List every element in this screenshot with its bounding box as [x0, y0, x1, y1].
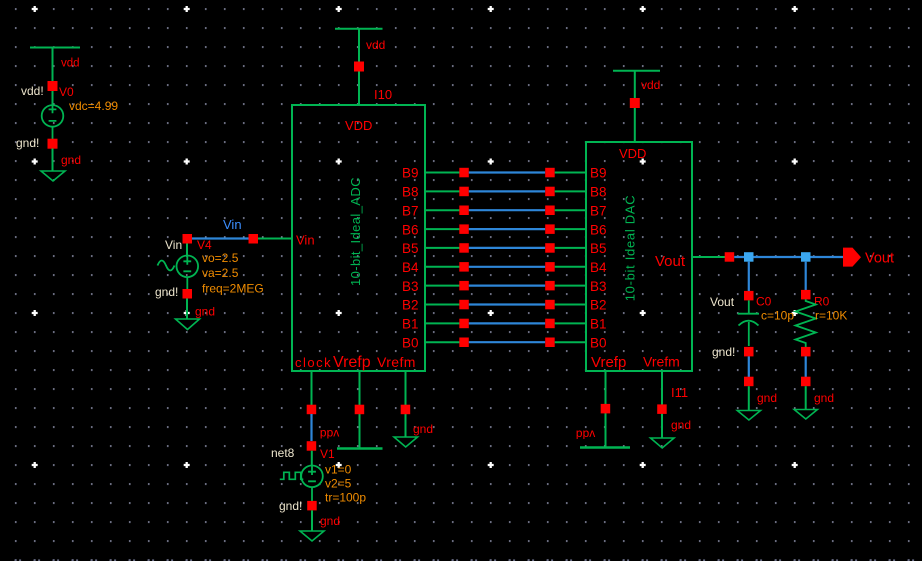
vsin source V4 — [177, 244, 199, 290]
junction square B7 left — [459, 206, 469, 216]
junction square Vrefp (DAC) — [601, 404, 611, 414]
ground symbol (V0) — [41, 149, 65, 182]
vdd symbol of V0 supply — [30, 48, 80, 82]
pin square R0 top — [801, 290, 811, 300]
svg-text:tr=100p: tr=100p — [325, 491, 366, 505]
junction square C0 gnd — [744, 377, 754, 387]
pin label B5 (ADC) — [402, 241, 419, 256]
junction square B0 right — [545, 338, 555, 348]
wire clock to V1 (blue) — [310, 414, 312, 441]
junction square B3 left — [459, 281, 469, 291]
pin label Vrefp (DAC) — [591, 354, 626, 371]
instance name C0 — [756, 295, 772, 309]
pin label B7 (ADC) — [402, 203, 419, 218]
pin label VDD (ADC) — [345, 118, 372, 133]
wire clock stub — [311, 371, 313, 405]
svg-text:gnd: gnd — [757, 391, 777, 405]
svg-text:net8: net8 — [271, 446, 295, 460]
value label vo=2.5 — [202, 251, 239, 265]
svg-text:Vin: Vin — [223, 217, 242, 232]
pin square ADC VDD — [354, 62, 364, 72]
net label gnd (DAC Vrefm) — [671, 418, 691, 432]
svg-text:Vout: Vout — [710, 295, 735, 309]
svg-text:gnd!: gnd! — [279, 499, 302, 513]
svg-text:R0: R0 — [814, 295, 830, 309]
wire B7 DAC stub — [555, 209, 586, 211]
pin label B1 (ADC) — [402, 317, 419, 332]
wire B7 ADC stub — [425, 209, 460, 211]
value label c=10p — [761, 309, 794, 323]
pin label B8 (DAC) — [590, 185, 607, 200]
value label va=2.5 — [202, 266, 239, 280]
wire B8 (blue net) — [469, 190, 545, 192]
svg-text:gnd!: gnd! — [712, 345, 735, 359]
solder dot Vout/R0 — [801, 252, 811, 262]
svg-text:gnd: gnd — [413, 422, 433, 436]
net label net8 — [271, 446, 295, 460]
svg-text:Vin: Vin — [296, 233, 315, 248]
junction square Vin left — [183, 234, 193, 244]
svg-text:Vrefp: Vrefp — [591, 354, 626, 371]
svg-text:B5: B5 — [590, 241, 607, 256]
svg-text:Vout: Vout — [865, 251, 894, 267]
pin label B9 (ADC) — [402, 166, 419, 181]
net label gnd (V0) — [61, 153, 81, 167]
net label gnd! (V0) — [16, 136, 39, 150]
junction square B6 left — [459, 224, 469, 234]
wire C0 top (blue) — [748, 262, 750, 291]
svg-text:B2: B2 — [590, 298, 607, 313]
wire ADC VDD stem — [358, 72, 360, 106]
net label gnd! (V1) — [279, 499, 302, 513]
wire Vrefp stub (DAC) — [605, 371, 607, 447]
pin label B0 (ADC) — [402, 335, 419, 350]
pin label B9 (DAC) — [590, 166, 607, 181]
svg-text:gnd: gnd — [320, 514, 340, 528]
net label vdd (ADC Vrefp) — [320, 427, 339, 441]
svg-text:V4: V4 — [197, 238, 212, 252]
cell label 10-bit Ideal DAC — [623, 195, 638, 302]
svg-text:B4: B4 — [590, 260, 607, 275]
sine glyph of V4 — [158, 261, 175, 271]
junction square B5 right — [545, 243, 555, 253]
wire B6 ADC stub — [425, 228, 460, 230]
svg-text:C0: C0 — [756, 295, 772, 309]
net label gnd (V1) — [320, 514, 340, 528]
wire B4 (blue net) — [469, 266, 545, 268]
net label vdd (DAC Vrefp) — [576, 428, 595, 442]
svg-text:va=2.5: va=2.5 — [202, 266, 239, 280]
svg-text:vdd: vdd — [61, 58, 80, 70]
wire DAC VDD stem — [634, 108, 636, 142]
pin label B0 (DAC) — [590, 335, 607, 350]
svg-text:gnd!: gnd! — [16, 136, 39, 150]
svg-text:VDD: VDD — [345, 118, 372, 133]
svg-text:V1: V1 — [320, 447, 335, 461]
svg-text:Vin: Vin — [165, 238, 182, 252]
junction square Vout — [725, 252, 735, 262]
value label v2=5 — [325, 477, 352, 491]
solder dot Vout/C0 — [744, 252, 754, 262]
ground symbol (V1) — [300, 510, 324, 541]
pin label B1 (DAC) — [590, 317, 607, 332]
net label Vout (C0, white) — [710, 295, 735, 309]
svg-text:Vrefm: Vrefm — [377, 354, 416, 370]
wire B2 (blue net) — [469, 303, 545, 305]
wire B0 ADC stub — [425, 341, 460, 343]
wire Vrefm stub (DAC) — [661, 371, 663, 438]
wire B0 (blue net) — [469, 341, 545, 343]
pin label Vrefm (DAC) — [643, 354, 680, 370]
junction square B2 right — [545, 300, 555, 310]
instance name V4 — [197, 238, 212, 252]
pin label Vin (ADC) — [296, 233, 315, 248]
svg-text:Vout: Vout — [655, 253, 686, 270]
wire B7 (blue net) — [469, 209, 545, 211]
wire B3 ADC stub — [425, 285, 460, 287]
wire B5 ADC stub — [425, 247, 460, 249]
svg-text:B2: B2 — [402, 298, 419, 313]
capacitor C0 — [738, 300, 759, 346]
svg-text:B3: B3 — [402, 279, 419, 294]
net name Vin (blue wire label) — [223, 217, 242, 232]
wire B4 ADC stub — [425, 266, 460, 268]
pin square C0 top — [744, 291, 754, 301]
svg-text:v1=0: v1=0 — [325, 463, 352, 477]
svg-text:vdd: vdd — [366, 38, 385, 52]
wire B8 ADC stub — [425, 190, 460, 192]
junction square clock — [307, 405, 317, 415]
vpulse source V1 — [301, 451, 323, 501]
svg-text:gnd: gnd — [195, 305, 215, 319]
pin label B4 (DAC) — [590, 260, 607, 275]
wire B5 (blue net) — [469, 247, 545, 249]
junction square B8 left — [459, 187, 469, 197]
ground symbol (R0) — [794, 386, 817, 419]
DAC block I11 10-bit Ideal DAC — [586, 142, 692, 371]
svg-text:vo=2.5: vo=2.5 — [202, 251, 239, 265]
pin label B6 (DAC) — [590, 222, 607, 237]
junction square B9 right — [545, 168, 555, 178]
resistor R0 — [796, 299, 816, 347]
svg-text:B1: B1 — [590, 317, 607, 332]
pin label Vout (DAC) — [655, 253, 686, 270]
pin label B5 (DAC) — [590, 241, 607, 256]
junction square B4 right — [545, 262, 555, 272]
vdd symbol below DAC Vrefp — [580, 446, 630, 448]
instance name R0 — [814, 295, 830, 309]
wire to ADC Vin pin — [258, 238, 292, 240]
svg-text:B4: B4 — [402, 260, 419, 275]
instance name I11 — [671, 385, 688, 400]
junction square B1 right — [545, 319, 555, 329]
svg-text:gnd: gnd — [671, 418, 691, 432]
net label vdd (ADC top) — [366, 38, 385, 52]
svg-text:10-bit Ideal DAC: 10-bit Ideal DAC — [623, 195, 638, 302]
wire Vin (blue) — [187, 237, 253, 239]
pin label Vrefm (ADC) — [377, 354, 416, 370]
value label freq=2MEG — [202, 282, 264, 296]
ground symbol (DAC Vrefm) — [651, 438, 675, 448]
wire B2 DAC stub — [555, 304, 586, 306]
net label Vout (right) — [865, 251, 894, 267]
junction square net8 — [307, 441, 317, 451]
ground symbol (ADC Vrefm) — [394, 437, 418, 447]
svg-text:B8: B8 — [402, 185, 419, 200]
wire B1 ADC stub — [425, 322, 460, 324]
svg-text:B6: B6 — [590, 222, 607, 237]
junction square B1 left — [459, 319, 469, 329]
junction square B8 right — [545, 187, 555, 197]
net label Vin (white) — [165, 238, 182, 252]
pin square V0 plus — [48, 81, 58, 91]
net label vdd (V0 top) — [61, 58, 80, 70]
svg-text:vdd: vdd — [320, 427, 339, 441]
output pin arrow Vout — [843, 248, 861, 267]
svg-text:Vrefm: Vrefm — [643, 354, 680, 370]
value label vdc=4.99 — [69, 99, 118, 113]
junction square B9 left — [459, 168, 469, 178]
svg-text:B1: B1 — [402, 317, 419, 332]
svg-text:gnd: gnd — [61, 153, 81, 167]
pin square R0 bottom — [801, 347, 811, 357]
wire B3 DAC stub — [555, 285, 586, 287]
svg-text:Vrefp: Vrefp — [333, 354, 371, 371]
ground symbol (V4) — [176, 299, 200, 330]
value label v1=0 — [325, 463, 352, 477]
svg-text:c=10p: c=10p — [761, 309, 794, 323]
net label gnd! (V4) — [155, 285, 178, 299]
svg-text:B3: B3 — [590, 279, 607, 294]
wire B9 DAC stub — [555, 172, 586, 174]
svg-text:B7: B7 — [590, 203, 607, 218]
svg-text:B7: B7 — [402, 203, 419, 218]
pin label B3 (DAC) — [590, 279, 607, 294]
junction square B4 left — [459, 262, 469, 272]
wire B9 ADC stub — [425, 172, 460, 174]
junction square B3 right — [545, 281, 555, 291]
instance name I10 — [374, 87, 392, 102]
pin square C0 bottom — [744, 347, 754, 357]
wire B6 DAC stub — [555, 228, 586, 230]
instance name V0 — [59, 85, 74, 99]
net label vdd (DAC top) — [641, 78, 660, 92]
svg-text:r=10K: r=10K — [815, 309, 847, 323]
svg-text:10-bit_Ideal_ADC: 10-bit_Ideal_ADC — [348, 177, 363, 286]
svg-text:vdc=4.99: vdc=4.99 — [69, 99, 118, 113]
wire C0 to gnd (blue) — [748, 356, 750, 377]
instance name V1 — [320, 447, 335, 461]
wire R0 top (blue) — [805, 262, 807, 290]
junction square Vin right — [249, 234, 259, 244]
junction square B6 right — [545, 224, 555, 234]
value label tr=100p — [325, 491, 366, 505]
vdd symbol below ADC Vrefp — [337, 447, 383, 449]
pin label B4 (ADC) — [402, 260, 419, 275]
svg-text:I11: I11 — [671, 385, 688, 400]
op-amp/ADC block I10 10-bit_Ideal_ADC — [292, 105, 425, 371]
svg-text:clock: clock — [295, 355, 332, 370]
pin label B8 (ADC) — [402, 185, 419, 200]
pin square DAC VDD — [630, 98, 640, 108]
wire B0 DAC stub — [555, 341, 586, 343]
wire B1 DAC stub — [555, 322, 586, 324]
svg-text:gnd!: gnd! — [155, 285, 178, 299]
pin label B3 (ADC) — [402, 279, 419, 294]
junction square R0 gnd — [801, 377, 811, 387]
svg-text:B9: B9 — [402, 166, 419, 181]
pin square V4 minus — [183, 289, 193, 299]
wire B6 (blue net) — [469, 228, 545, 230]
svg-text:gnd: gnd — [814, 391, 834, 405]
wire B5 DAC stub — [555, 247, 586, 249]
wire Vrefm stub (ADC) — [405, 371, 407, 437]
vdd symbol above ADC — [335, 29, 383, 62]
pin label VDD (DAC) — [619, 146, 646, 161]
junction square B5 left — [459, 243, 469, 253]
net label vdd! — [21, 84, 44, 98]
svg-text:v2=5: v2=5 — [325, 477, 352, 491]
svg-text:I10: I10 — [374, 87, 392, 102]
wire B3 (blue net) — [469, 285, 545, 287]
svg-text:B9: B9 — [590, 166, 607, 181]
junction square B0 left — [459, 338, 469, 348]
svg-text:freq=2MEG: freq=2MEG — [202, 282, 264, 296]
net label gnd! (C0) — [712, 345, 735, 359]
wire B9 (blue net) — [469, 171, 545, 173]
svg-text:vdd!: vdd! — [21, 84, 44, 98]
svg-text:vdd: vdd — [641, 78, 660, 92]
junction square B7 right — [545, 206, 555, 216]
pulse glyph of V1 — [280, 472, 304, 479]
svg-text:B8: B8 — [590, 185, 607, 200]
wire B1 (blue net) — [469, 322, 545, 324]
wire B2 ADC stub — [425, 304, 460, 306]
pin label B7 (DAC) — [590, 203, 607, 218]
net label gnd (ADC Vrefm) — [413, 422, 433, 436]
ground symbol (C0) — [737, 386, 760, 420]
pin label B6 (ADC) — [402, 222, 419, 237]
wire B4 DAC stub — [555, 266, 586, 268]
svg-text:VDD: VDD — [619, 146, 646, 161]
junction square Vrefm (DAC) — [657, 404, 667, 414]
net label gnd (C0) — [757, 391, 777, 405]
wire B8 DAC stub — [555, 190, 586, 192]
junction square Vrefp (ADC) — [355, 405, 365, 415]
value label r=10K — [815, 309, 847, 323]
wire Vout from DAC — [692, 256, 725, 258]
net label gnd (R0) — [814, 391, 834, 405]
wire R0 to gnd (blue) — [805, 356, 807, 377]
wire Vrefp stub (ADC) — [359, 371, 361, 448]
svg-text:B0: B0 — [402, 335, 419, 350]
vdd symbol above DAC — [613, 71, 660, 99]
svg-text:B0: B0 — [590, 335, 607, 350]
pin label B2 (ADC) — [402, 298, 419, 313]
pin label clock — [295, 355, 332, 370]
pin square V1 minus — [307, 501, 317, 511]
pin label B2 (DAC) — [590, 298, 607, 313]
svg-text:B5: B5 — [402, 241, 419, 256]
cell label 10-bit_Ideal_ADC — [348, 177, 363, 286]
vdc source V0 — [42, 91, 64, 140]
svg-text:B6: B6 — [402, 222, 419, 237]
svg-text:V0: V0 — [59, 85, 74, 99]
wire Vout (blue) — [734, 256, 843, 258]
junction square Vrefm (ADC) — [401, 405, 411, 415]
junction square B2 left — [459, 300, 469, 310]
pin label Vrefp (ADC) — [333, 354, 371, 371]
pin square V0 minus — [48, 139, 58, 149]
net label gnd (V4) — [195, 305, 215, 319]
svg-text:vdd: vdd — [576, 428, 595, 442]
